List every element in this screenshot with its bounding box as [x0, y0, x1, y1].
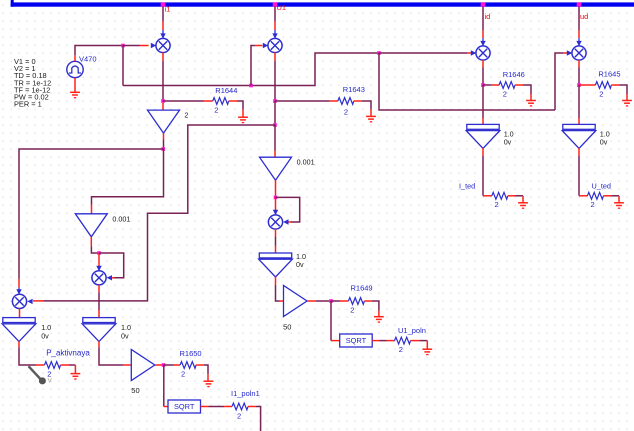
node ud bus tap: [577, 2, 582, 7]
resistor P_aktivnaya pin 2: [61, 364, 70, 366]
integrator U_p (1.0 0v): [2, 318, 36, 342]
wire node L down to integrator: [578, 85, 580, 124]
value 2 of P resistor: [47, 369, 51, 378]
wire row y85 to corner x315: [123, 53, 379, 86]
node L junction (579,85): [577, 83, 581, 87]
value 1.0 of integrator U_i2: [121, 323, 131, 332]
node F junction (99,253): [97, 251, 101, 255]
resistor at U_ted pin 1: [579, 195, 587, 197]
svg-text:0.001: 0.001: [112, 215, 130, 224]
ground at R1646: [526, 101, 536, 106]
value 0.001 of left gain: [112, 215, 130, 224]
wire node C to M3 left input: [379, 50, 476, 55]
svg-text:P_aktivnaya: P_aktivnaya: [46, 348, 90, 357]
wire node N to R1649: [331, 300, 340, 302]
wire I1_poln1 resistor to bottom edge: [256, 407, 261, 431]
resistor R1644 pin 2: [229, 100, 237, 102]
value 50 of current gain: [131, 386, 139, 395]
svg-text:R1643: R1643: [343, 85, 365, 94]
V470 pin 1 (top): [74, 55, 76, 61]
wire SQRT to I1_poln1 resistor: [209, 406, 225, 408]
svg-text:R1645: R1645: [598, 70, 620, 79]
svg-text:2: 2: [599, 89, 603, 98]
wire M5 output to integrator: [19, 308, 21, 317]
resistor I1_poln1: [232, 403, 248, 410]
wire node J loop to M7 right input: [276, 197, 300, 224]
net label U1_poln: [398, 326, 426, 335]
bus (top signal bus): [11, 0, 634, 7]
ground at R1644: [238, 117, 248, 122]
resistor R1650: [180, 362, 196, 369]
wire bus to multiplier M4: [576, 7, 581, 47]
wire gain output to node N: [316, 300, 331, 302]
multiplier M2 (U1 switch): [268, 38, 282, 52]
resistor at I_ted: [492, 192, 508, 199]
svg-text:R1646: R1646: [503, 70, 525, 79]
node C junction (379,53): [377, 51, 381, 55]
value 2 of R1645: [599, 89, 603, 98]
gain block 2 (x2): [148, 110, 180, 133]
wire node A down to row y85: [122, 46, 124, 86]
svg-text:U1_poln: U1_poln: [398, 326, 426, 335]
node U1 bus tap: [273, 2, 278, 7]
wire R1646 to ground: [523, 85, 531, 100]
node E junction (163,149): [161, 147, 165, 151]
svg-text:2: 2: [591, 200, 595, 209]
resistor R1645: [595, 82, 611, 89]
svg-text:0v: 0v: [41, 332, 49, 341]
net label I1_poln1: [231, 389, 260, 398]
node id bus tap: [481, 2, 486, 7]
value 2 of gain block: [184, 110, 188, 119]
value 2 of I1_poln1 resistor: [237, 412, 241, 421]
svg-text:id: id: [485, 12, 491, 21]
wire node G to R1643: [275, 100, 330, 102]
integrator U_u2 (1.0 0v): [259, 253, 293, 277]
svg-text:SQRT: SQRT: [346, 336, 367, 345]
svg-text:R1644: R1644: [215, 86, 237, 95]
value 50 of voltage gain: [283, 322, 291, 331]
gain block 0.001 (left): [75, 214, 107, 237]
wire node M down to SQRT (current): [164, 365, 168, 407]
svg-text:0v: 0v: [600, 138, 608, 147]
ground at R1649: [374, 317, 384, 322]
value 2 of I_ted resistor: [495, 200, 499, 209]
net label id: [485, 12, 491, 21]
label R1646: [503, 70, 525, 79]
svg-text:2: 2: [181, 369, 185, 378]
wire M4 output down: [578, 60, 580, 85]
wire bus to multiplier M1: [160, 7, 165, 39]
resistor R1650 pin 1: [174, 364, 181, 366]
wire node J down to M7 top input: [273, 197, 278, 215]
resistor U1_poln: [395, 337, 411, 344]
resistor R1650 pin 2: [196, 364, 204, 366]
resistor R1646: [499, 82, 515, 89]
wire node F right and down to M6 right input: [99, 253, 124, 280]
node N junction (331,301): [329, 299, 333, 303]
multiplier M4 (ud switch): [572, 46, 586, 60]
wire U1_poln resistor to ground: [420, 341, 428, 349]
svg-text:U1: U1: [277, 3, 287, 12]
svg-text:R1650: R1650: [180, 349, 202, 358]
wire y110 up to M4 left input: [555, 50, 572, 110]
net label i1: [165, 4, 171, 13]
svg-text:I_ted: I_ted: [459, 181, 475, 190]
svg-text:2: 2: [184, 110, 188, 119]
svg-text:I1_poln1: I1_poln1: [231, 389, 260, 398]
svg-text:2: 2: [503, 90, 507, 99]
resistor at I_ted pin 2: [508, 195, 516, 197]
ground at R1645: [622, 101, 632, 106]
wire node M to R1650: [164, 364, 174, 366]
gain 50 output pin: [155, 364, 164, 366]
wire node K down to integrator: [482, 85, 484, 124]
multiplier M6 (current squarer): [92, 271, 106, 285]
svg-text:0v: 0v: [504, 138, 512, 147]
wire R1649 to ground: [372, 301, 379, 317]
resistor U1_poln pin 2: [411, 340, 420, 342]
value 0v of integrator U_i2: [121, 332, 129, 341]
value 0v of integrator U_id: [504, 138, 512, 147]
wire M3 output down: [482, 60, 484, 85]
resistor at U_ted pin 2: [603, 195, 611, 197]
multiplier M5 (power multiplier): [12, 294, 26, 308]
value 1.0 of integrator U_u2: [296, 252, 306, 261]
resistor R1643 pin 2: [354, 100, 362, 102]
ground at P_aktivnaya: [71, 374, 81, 379]
node K junction (483,85): [481, 83, 485, 87]
wire M6 output to integrator: [98, 285, 100, 318]
gain block 0.001 (mid) output pin: [275, 180, 277, 197]
integrator U_id (1.0 0v): [466, 124, 500, 148]
resistor R1649 pin 1: [340, 300, 348, 302]
V470 pin 2 (bottom): [74, 78, 76, 92]
wire 0.001 output to node F: [91, 246, 99, 253]
SQRT block (current channel): [168, 400, 201, 413]
SQRT block (voltage channel): [340, 334, 373, 347]
wire node C down and right along y110: [379, 53, 555, 110]
value 0v of integrator U_p: [41, 332, 49, 341]
wire node A to M1 left input: [123, 43, 156, 48]
multiplier M1 (i1 switch): [156, 38, 170, 52]
value 2 of R1650: [181, 369, 185, 378]
ground at U_ted: [614, 203, 624, 208]
value 2 of U_ted resistor: [591, 200, 595, 209]
ground at R1650: [204, 381, 214, 386]
gain 50 output pin: [307, 300, 316, 302]
value 2 of R1643: [344, 107, 348, 116]
value 1.0 of integrator U_id: [504, 129, 514, 138]
resistor P_aktivnaya pin 1: [36, 364, 45, 366]
gain block 2 input pin: [162, 103, 164, 110]
label R1643: [343, 85, 365, 94]
voltage source V470: [67, 61, 83, 77]
resistor at I_ted pin 1: [483, 195, 492, 197]
resistor U1_poln pin 1: [387, 340, 395, 342]
resistor R1644 pin 1: [204, 100, 213, 102]
voltage probe marker: [29, 366, 53, 384]
node A junction (123,45): [121, 44, 125, 48]
resistor R1643: [338, 98, 354, 105]
resistor R1644: [213, 98, 229, 105]
wire integrator U_p output to P resistor: [19, 341, 36, 365]
value 0v of integrator U_u2: [296, 260, 304, 269]
wire integrator U_u2 output to gain 50: [276, 277, 284, 301]
net label U_ted: [592, 181, 611, 190]
svg-text:0v: 0v: [121, 332, 129, 341]
svg-text:2: 2: [350, 305, 354, 314]
node G junction (275,101): [273, 99, 277, 103]
V470 PSpice parameters text: [14, 57, 51, 109]
label V470: [79, 54, 97, 63]
gain block 0.001 (mid): [260, 157, 292, 180]
value 2 of U1_poln resistor: [399, 345, 403, 354]
wire integrator U_i2 output to gain 50: [99, 341, 131, 365]
node i1 bus tap: [161, 2, 166, 7]
SQRT (current) output pin: [201, 406, 209, 408]
wire R1643 to ground: [362, 101, 371, 116]
gain block 0.001 (left) output pin: [90, 237, 92, 246]
ground at U1_poln: [422, 349, 432, 354]
wire M2 output down: [274, 53, 276, 102]
svg-text:2: 2: [495, 200, 499, 209]
svg-text:2: 2: [344, 107, 348, 116]
multiplier M3 (id switch): [476, 46, 490, 60]
ground at V470: [70, 92, 80, 97]
wire node E down to 0.001 gain input: [92, 149, 164, 205]
resistor R1649: [348, 298, 364, 305]
svg-text:ud: ud: [580, 12, 588, 21]
net label ud: [580, 12, 588, 21]
wire bus to multiplier M2: [272, 7, 277, 39]
integrator U_i2 (1.0 0v): [82, 318, 116, 342]
svg-text:50: 50: [283, 322, 291, 331]
value 2 of R1646: [503, 90, 507, 99]
wire R1650 to ground: [204, 365, 208, 381]
ground at I_ted: [518, 203, 528, 208]
svg-text:R1649: R1649: [351, 283, 373, 292]
svg-text:V470: V470: [79, 54, 97, 63]
wire R1645 to ground: [619, 85, 627, 100]
wire SQRT to U1_poln resistor: [379, 340, 386, 342]
svg-text:2: 2: [214, 105, 218, 114]
svg-text:U_ted: U_ted: [592, 181, 611, 190]
multiplier M7 (voltage squarer): [268, 215, 282, 229]
wire integrator U_id output down: [482, 148, 484, 196]
svg-text:2: 2: [237, 412, 241, 421]
wire node G down to node H: [274, 101, 276, 125]
svg-text:2: 2: [399, 345, 403, 354]
value 1.0 of integrator U_ud: [600, 129, 610, 138]
wire M7 output to integrator: [275, 229, 277, 253]
svg-text:0v: 0v: [296, 260, 304, 269]
gain block 50 (current channel): [131, 350, 155, 381]
node D junction (163,101): [161, 99, 165, 103]
resistor P_aktivnaya: [45, 362, 61, 369]
wire P resistor to ground: [69, 365, 75, 373]
SQRT (voltage) output pin: [372, 340, 379, 342]
wire R1644 to ground: [237, 101, 243, 117]
gain block 50 (voltage channel): [284, 286, 308, 317]
net label I_ted: [459, 181, 475, 190]
wire V470 to node A: [75, 46, 123, 56]
wire integrator U_ud output down: [578, 148, 580, 196]
label R1649: [351, 283, 373, 292]
wire node B up to M2 left input: [251, 43, 268, 86]
wire node H left to M5 right input (long feedback path): [27, 125, 275, 304]
wire gain2 output to node E: [163, 140, 165, 150]
resistor R1646 pin 1: [492, 84, 499, 86]
wire U_ted resistor to ground: [611, 196, 619, 203]
label R1645: [598, 70, 620, 79]
resistor at U_ted: [587, 192, 603, 199]
resistor R1646 pin 2: [515, 84, 523, 86]
integrator U_ud (1.0 0v): [562, 124, 596, 148]
wire node F down to M6 top input: [96, 253, 101, 271]
node B junction (251,85.5): [249, 84, 253, 88]
wire node E left and down to M5 top input: [16, 149, 163, 295]
wire node H down to 0.001 gain (mid) input: [274, 125, 276, 157]
value 0.001 of mid gain: [297, 158, 315, 167]
gain block 0.001 (left) input pin: [91, 205, 93, 214]
svg-text:50: 50: [131, 386, 139, 395]
svg-text:0.001: 0.001: [297, 158, 315, 167]
value 2 of R1649: [350, 305, 354, 314]
wire bus to multiplier M3: [480, 7, 485, 47]
wire I_ted resistor to ground: [516, 196, 524, 203]
label R1650: [180, 349, 202, 358]
svg-text:i1: i1: [165, 4, 171, 13]
svg-text:SQRT: SQRT: [174, 402, 195, 411]
value 2 of R1644: [214, 105, 218, 114]
value 1.0 of integrator U_p: [41, 323, 51, 332]
wire node N down to SQRT (voltage): [331, 301, 340, 341]
gain block 2 output pin: [163, 133, 165, 139]
wire node K to R1646: [483, 84, 492, 86]
resistor I1_poln1 pin 2: [248, 406, 256, 408]
wire node D to R1644: [163, 100, 204, 102]
node J junction (275.5,197.4): [274, 196, 278, 200]
label R1644: [215, 86, 237, 95]
net label P_aktivnaya: [46, 348, 90, 357]
resistor R1645 pin 2: [611, 84, 619, 86]
net label U1: [277, 3, 287, 12]
resistor R1645 pin 1: [579, 84, 595, 86]
resistor R1649 pin 2: [364, 300, 371, 302]
node M junction (163.8,364.5): [162, 363, 166, 367]
ground at R1643: [366, 116, 376, 121]
wire M1 output down: [162, 53, 164, 102]
value 0v of integrator U_ud: [600, 138, 608, 147]
resistor R1643 pin 1: [330, 100, 338, 102]
node H junction (275,125): [273, 123, 277, 127]
resistor I1_poln1 pin 1: [224, 406, 232, 408]
